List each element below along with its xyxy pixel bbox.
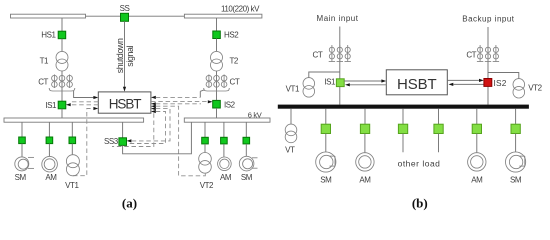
svg-text:110(220) kV: 110(220) kV	[221, 5, 260, 14]
svg-text:Backup input: Backup input	[462, 14, 515, 23]
svg-text:IS1: IS1	[45, 101, 57, 110]
svg-text:SM: SM	[241, 173, 253, 182]
svg-text:VT1: VT1	[286, 84, 300, 93]
svg-text:IS1: IS1	[324, 78, 336, 87]
svg-text:6 kV: 6 kV	[248, 110, 262, 119]
svg-text:SS: SS	[120, 4, 130, 13]
svg-text:VT2: VT2	[528, 83, 542, 92]
svg-text:VT2: VT2	[200, 181, 214, 190]
svg-text:T1: T1	[40, 57, 49, 66]
svg-text:HSBT: HSBT	[397, 76, 437, 93]
svg-text:CT: CT	[38, 77, 48, 86]
svg-text:CT: CT	[313, 51, 323, 60]
svg-text:CT: CT	[466, 50, 476, 59]
svg-text:CT: CT	[230, 78, 240, 87]
svg-text:signal: signal	[125, 45, 135, 66]
svg-text:Main input: Main input	[317, 14, 359, 23]
svg-text:AM: AM	[471, 176, 483, 185]
svg-text:IS2: IS2	[494, 78, 507, 88]
svg-text:AM: AM	[220, 173, 232, 182]
svg-text:SM: SM	[320, 176, 332, 185]
svg-text:other load: other load	[398, 158, 441, 168]
svg-text:HS2: HS2	[224, 31, 239, 40]
svg-text:IS2: IS2	[224, 101, 236, 110]
svg-text:HS1: HS1	[41, 31, 56, 40]
svg-text:shutdown: shutdown	[115, 38, 125, 73]
svg-text:SM: SM	[510, 176, 522, 185]
svg-text:SS3: SS3	[104, 137, 119, 146]
svg-text:HSBT: HSBT	[109, 97, 141, 112]
svg-text:AM: AM	[45, 173, 57, 182]
svg-text:(b): (b)	[412, 196, 428, 211]
svg-text:(a): (a)	[122, 196, 137, 211]
svg-text:VT: VT	[285, 146, 295, 155]
svg-text:AM: AM	[359, 176, 371, 185]
svg-text:SM: SM	[15, 173, 27, 182]
svg-text:VT1: VT1	[65, 181, 79, 190]
svg-text:T2: T2	[230, 57, 239, 66]
